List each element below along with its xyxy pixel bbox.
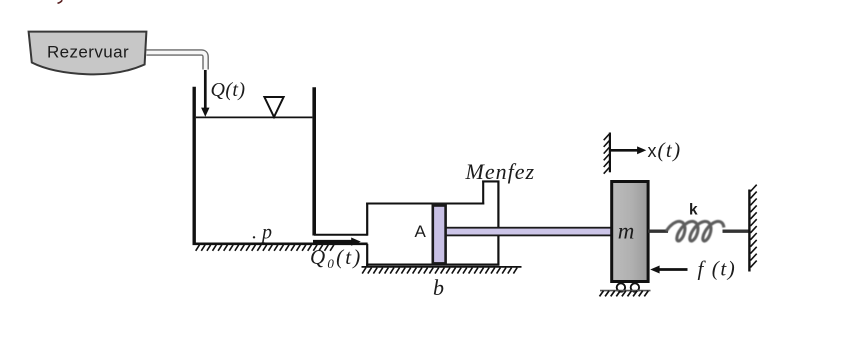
- supply pipe: [147, 53, 206, 70]
- outlet channel top wall: [314, 234, 368, 236]
- spring k left link: [648, 229, 668, 232]
- svg-text:f (t): f (t): [698, 257, 737, 281]
- spring k right link: [723, 229, 750, 232]
- tank bottom ground line: [193, 243, 368, 246]
- stray label fragment top-left: [58, 0, 63, 3]
- svg-text:(t): (t): [658, 138, 682, 162]
- piston top cap: [432, 203, 447, 207]
- water surface line: [196, 116, 313, 118]
- reservoir tank Rezervuar: [29, 32, 147, 75]
- hatching on reference wall: [604, 134, 610, 174]
- cylinder bottom wall: [366, 263, 499, 265]
- svg-text:Menfez: Menfez: [465, 159, 536, 184]
- ground line under cylinder: [362, 266, 522, 268]
- tank right wall: [312, 87, 316, 235]
- svg-text:. p: . p: [252, 222, 272, 244]
- step down from tank ground to cylinder ground: [366, 244, 368, 267]
- svg-text:x: x: [648, 141, 657, 161]
- svg-text:k: k: [689, 202, 698, 219]
- cylinder right wall: [497, 181, 499, 266]
- svg-text:Q0(t): Q0(t): [310, 245, 363, 271]
- ground hatching under cylinder: [362, 268, 517, 274]
- svg-text:b: b: [433, 275, 444, 300]
- roller 1: [617, 283, 625, 291]
- hatching on fixed wall: [750, 185, 756, 268]
- tank left wall: [192, 87, 195, 244]
- mass m: [612, 182, 648, 282]
- fixed wall right: [748, 190, 750, 272]
- piston rod: [446, 228, 612, 236]
- ground hatching under tank: [196, 245, 334, 251]
- svg-text:m: m: [618, 219, 635, 244]
- ground hatching under mass: [600, 291, 649, 297]
- orifice step top: [482, 180, 499, 182]
- svg-text:Rezervuar: Rezervuar: [47, 43, 129, 62]
- water level symbol: [264, 97, 283, 117]
- cylinder top wall: [366, 202, 484, 204]
- reference wall for x(t): [609, 133, 611, 173]
- piston A: [433, 204, 446, 263]
- force arrow f(t): [657, 268, 688, 271]
- outflow arrow Q0(t): [313, 240, 353, 243]
- inflow arrow Q(t): [204, 70, 207, 109]
- ground line under mass: [600, 290, 651, 292]
- svg-text:Q(t): Q(t): [211, 79, 246, 101]
- cylinder left wall upper: [366, 203, 368, 236]
- svg-text:A: A: [415, 222, 427, 241]
- spring k coils: [666, 221, 724, 241]
- roller 2: [631, 283, 639, 291]
- orifice step (menfez) left riser: [482, 181, 484, 205]
- arrow x(t): [611, 149, 639, 152]
